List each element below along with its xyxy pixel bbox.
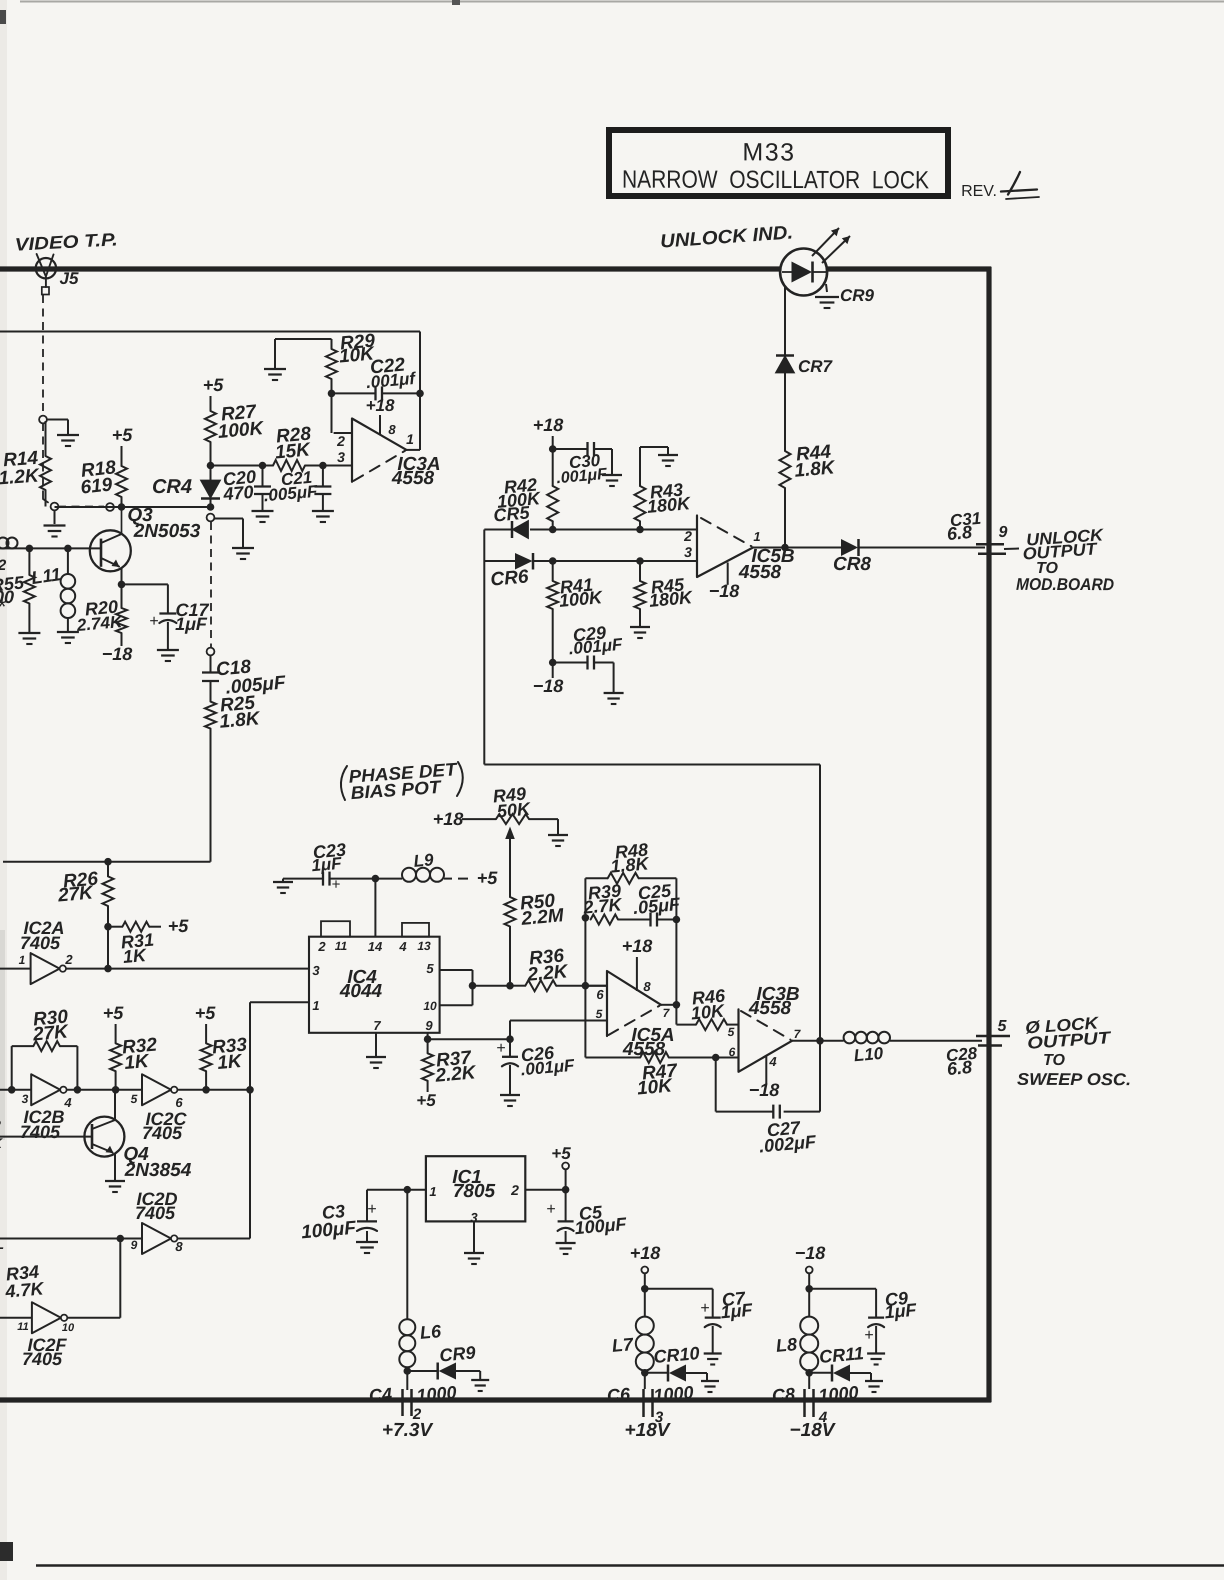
IC1 7805 regulator	[426, 1156, 525, 1221]
capacitor C3	[366, 1190, 368, 1222]
diode CR9 (supply)	[407, 1370, 437, 1372]
svg-text:−18: −18	[795, 1243, 826, 1263]
node	[549, 557, 557, 565]
svg-text:CR8: CR8	[833, 554, 871, 575]
svg-text:L9: L9	[413, 850, 435, 871]
transistor Q4	[84, 1117, 124, 1157]
svg-text:9: 9	[131, 1238, 138, 1252]
resistor R36	[510, 985, 525, 987]
svg-text:L7: L7	[611, 1334, 635, 1356]
node	[805, 1285, 813, 1293]
svg-text:4: 4	[398, 939, 407, 954]
svg-text:M33: M33	[742, 138, 795, 166]
wire phase detector feedback	[484, 764, 820, 766]
svg-text:2.2K: 2.2K	[434, 1062, 478, 1087]
svg-text:7405: 7405	[135, 1203, 176, 1223]
svg-text:L6: L6	[419, 1321, 443, 1343]
capacitor C25	[618, 919, 650, 921]
node	[816, 1037, 824, 1045]
wire to R26 bus	[3, 861, 211, 863]
svg-text:11: 11	[335, 939, 348, 953]
svg-text:+5: +5	[551, 1144, 571, 1163]
svg-text:13: 13	[417, 939, 431, 953]
node	[404, 1367, 412, 1375]
ground	[252, 510, 274, 512]
inverter IC2F	[0, 1317, 32, 1319]
node	[328, 390, 336, 398]
ground	[18, 632, 40, 634]
resistor R26	[104, 858, 112, 866]
svg-text:L8: L8	[775, 1334, 798, 1356]
op-amp IC3A	[352, 419, 407, 482]
svg-text:1.8K: 1.8K	[794, 457, 837, 482]
inductor L8	[800, 1317, 818, 1335]
svg-text:27K: 27K	[56, 882, 95, 906]
capacitor C28 feedthrough	[976, 1035, 1010, 1038]
capacitor C29	[553, 662, 587, 664]
svg-text:CR6: CR6	[490, 566, 530, 590]
svg-text:2: 2	[336, 433, 345, 449]
connector J5	[36, 258, 56, 278]
capacitor C4 feedthrough	[401, 1389, 404, 1416]
pin 2 wire	[334, 432, 351, 434]
svg-text:100K: 100K	[217, 418, 265, 443]
svg-text:1μF: 1μF	[175, 614, 208, 634]
output wire	[753, 547, 785, 549]
svg-text:619: 619	[80, 474, 114, 498]
ground	[232, 547, 254, 549]
pin 6 wire	[585, 985, 607, 987]
svg-text:+18: +18	[433, 809, 464, 829]
svg-text:+: +	[149, 613, 158, 630]
wire	[675, 920, 677, 1005]
resistor R37	[427, 1039, 429, 1053]
-18 supply	[765, 1055, 767, 1084]
capacitor C20	[262, 466, 264, 487]
ground	[556, 1242, 576, 1244]
svg-text:1: 1	[429, 1184, 436, 1199]
output wire	[792, 1040, 844, 1042]
wire	[107, 927, 109, 969]
svg-text:+: +	[496, 1040, 505, 1057]
capacitor C8 feedthrough	[808, 1373, 810, 1389]
svg-text:+: +	[864, 1327, 873, 1344]
node	[673, 916, 681, 924]
svg-text:+18: +18	[366, 396, 395, 415]
svg-text:CR9: CR9	[439, 1342, 477, 1365]
transistor Q3	[90, 530, 131, 571]
svg-text:1: 1	[19, 953, 26, 967]
ground	[312, 510, 334, 512]
IC U4 4044 phase detector	[309, 937, 440, 1033]
node	[259, 462, 267, 470]
svg-text:+18V: +18V	[625, 1420, 671, 1441]
shielded wire (dashed)	[207, 514, 215, 522]
node	[416, 390, 424, 398]
op-amp IC5B	[697, 516, 753, 578]
svg-text:4558: 4558	[748, 998, 792, 1019]
diode CR5	[484, 529, 512, 531]
svg-text:14: 14	[368, 939, 383, 954]
resistor R32	[115, 1024, 117, 1043]
svg-text:9: 9	[425, 1018, 433, 1033]
diode CR10	[645, 1372, 668, 1374]
node	[118, 581, 126, 589]
resistor R27	[210, 396, 212, 411]
svg-text:1: 1	[406, 431, 414, 447]
svg-text:+18: +18	[622, 936, 653, 956]
svg-text:10K: 10K	[636, 1075, 674, 1099]
svg-text:REV.: REV.	[961, 183, 997, 200]
svg-text:.05μF: .05μF	[632, 894, 681, 918]
svg-text:J5: J5	[60, 269, 80, 288]
svg-text:*: *	[0, 594, 7, 619]
wire	[374, 879, 376, 937]
svg-text:+: +	[700, 1300, 709, 1317]
capacitor C21	[322, 466, 324, 487]
ground	[548, 834, 568, 836]
svg-text:2N5053: 2N5053	[133, 521, 201, 542]
ground	[471, 1379, 489, 1381]
svg-text:L10: L10	[853, 1044, 884, 1066]
wire	[427, 1033, 429, 1039]
resistor R18	[121, 446, 123, 466]
svg-text:−18: −18	[533, 676, 564, 696]
svg-text:1000: 1000	[653, 1382, 695, 1405]
svg-text:1μF: 1μF	[720, 1300, 754, 1323]
svg-text:1.8K: 1.8K	[219, 708, 262, 733]
ground	[630, 626, 650, 628]
resistor R29	[275, 338, 332, 340]
wire	[784, 287, 786, 355]
svg-text:SWEEP OSC.: SWEEP OSC.	[1017, 1070, 1131, 1089]
ground	[356, 1241, 378, 1243]
wire input	[367, 1189, 426, 1191]
svg-text:−18: −18	[709, 581, 740, 601]
capacitor C17	[122, 583, 168, 585]
svg-text:7405: 7405	[20, 1122, 61, 1142]
node	[641, 1369, 649, 1377]
svg-text:CR4: CR4	[152, 476, 192, 498]
svg-text:1: 1	[753, 529, 760, 544]
svg-text:10: 10	[423, 999, 437, 1013]
svg-text:1μF: 1μF	[884, 1300, 918, 1323]
inductor L10	[844, 1032, 856, 1044]
svg-text:4558: 4558	[738, 562, 782, 583]
wire IC4 pin 1	[250, 1001, 309, 1003]
wire	[826, 284, 827, 292]
feedback node wire	[584, 878, 586, 1057]
svg-text:6: 6	[729, 1045, 736, 1059]
LED CR9	[780, 249, 827, 296]
svg-text:7405: 7405	[22, 1349, 63, 1369]
node	[319, 462, 327, 470]
resistor R42	[547, 486, 558, 521]
resistor R48	[585, 877, 607, 879]
pin 3 wire	[305, 465, 351, 467]
svg-text:7: 7	[373, 1018, 381, 1033]
svg-text:CR10: CR10	[653, 1343, 701, 1367]
svg-text:2: 2	[317, 939, 326, 954]
wire	[54, 510, 56, 524]
capacitor C27	[715, 1058, 717, 1112]
svg-text:CR11: CR11	[818, 1343, 864, 1367]
ground	[602, 474, 622, 476]
svg-text:4: 4	[768, 1054, 777, 1069]
wire	[47, 419, 68, 421]
title block	[609, 130, 948, 196]
resistor R30	[12, 1045, 34, 1047]
svg-text:5: 5	[596, 1007, 603, 1021]
capacitor C30	[553, 448, 587, 450]
svg-text:5: 5	[998, 1018, 1008, 1035]
node	[641, 1285, 649, 1293]
svg-text:1.8K: 1.8K	[610, 853, 652, 876]
ground	[44, 524, 66, 526]
svg-text:+5: +5	[112, 425, 134, 445]
capacitor C23	[283, 878, 323, 880]
node	[805, 1369, 813, 1377]
wire output	[525, 1189, 565, 1191]
capacitor C31	[976, 543, 1004, 546]
ground	[815, 296, 839, 298]
svg-text:2N3854: 2N3854	[124, 1160, 192, 1181]
node	[636, 557, 644, 565]
wiper arrow	[505, 827, 515, 840]
capacitor C7	[645, 1288, 713, 1290]
shield border bottom wire	[0, 1397, 991, 1402]
svg-text:2: 2	[510, 1182, 519, 1198]
svg-text:5: 5	[728, 1025, 735, 1039]
svg-text:100K: 100K	[558, 587, 605, 611]
svg-text:7805: 7805	[453, 1181, 496, 1202]
node	[549, 445, 557, 453]
svg-text:1000: 1000	[818, 1382, 860, 1405]
capacitor C9	[809, 1288, 876, 1290]
ground	[157, 649, 179, 651]
svg-text:4044: 4044	[339, 981, 383, 1002]
ground	[867, 1352, 885, 1354]
resistor R41	[552, 561, 554, 581]
svg-text:1K: 1K	[217, 1051, 244, 1074]
svg-text:3: 3	[684, 544, 692, 560]
resistor R20	[121, 584, 123, 608]
resistor R45	[639, 561, 641, 581]
page top edge mark	[20, 1, 1224, 3]
svg-text:+7.3V: +7.3V	[382, 1420, 434, 1441]
svg-text:CR7: CR7	[798, 357, 834, 376]
ground	[57, 434, 79, 436]
svg-text:4: 4	[63, 1095, 72, 1110]
svg-text:2.7K: 2.7K	[582, 894, 625, 917]
node	[372, 875, 380, 883]
node	[207, 503, 215, 511]
ground	[865, 1380, 883, 1382]
shielded wire from J5 (dashed)	[42, 295, 44, 416]
node	[712, 1054, 720, 1062]
svg-text:3: 3	[312, 963, 320, 978]
svg-text:+5: +5	[195, 1003, 217, 1023]
svg-text:27K: 27K	[31, 1021, 70, 1045]
svg-text:L11: L11	[30, 564, 62, 588]
svg-text:470: 470	[222, 482, 255, 505]
wire Q3 base	[14, 547, 101, 549]
svg-text:2: 2	[64, 952, 73, 967]
node	[207, 462, 215, 470]
svg-text:+5: +5	[168, 916, 190, 936]
capacitor C5	[565, 1190, 567, 1222]
svg-text:4.7K: 4.7K	[4, 1278, 47, 1301]
shield border right wire	[986, 267, 991, 1402]
diode CR6	[484, 560, 515, 562]
svg-text:180K: 180K	[646, 493, 693, 517]
svg-text:5: 5	[131, 1092, 138, 1106]
capacitor C18	[210, 655, 212, 673]
node	[104, 923, 112, 931]
svg-text:8: 8	[643, 979, 651, 994]
inverter IC2C	[142, 1074, 171, 1105]
svg-text:8: 8	[388, 422, 396, 437]
wire	[119, 1239, 121, 1318]
svg-text:+5: +5	[103, 1003, 125, 1023]
op-amp IC3B	[739, 1009, 793, 1071]
svg-text:+5: +5	[203, 375, 225, 395]
svg-text:8: 8	[175, 1239, 183, 1254]
ground	[604, 692, 624, 694]
resistor R47	[585, 1057, 640, 1059]
svg-text:7405: 7405	[20, 933, 61, 953]
svg-text:2: 2	[683, 528, 692, 544]
inductor L6	[406, 1190, 408, 1320]
shield tap node	[39, 416, 47, 424]
node	[104, 965, 112, 973]
node	[636, 526, 644, 534]
inverter IC2A	[0, 968, 31, 970]
svg-text:MOD.BOARD: MOD.BOARD	[1016, 575, 1114, 594]
svg-text:10: 10	[62, 1322, 75, 1334]
svg-text:1μF: 1μF	[311, 854, 343, 876]
svg-text:1K: 1K	[122, 945, 149, 967]
pin 5 wire	[510, 1020, 607, 1022]
wire IC3A feedback bus	[0, 331, 420, 333]
ground	[105, 1180, 125, 1182]
svg-text:10K: 10K	[690, 1000, 727, 1023]
svg-text:NARROW OSCILLATOR LOCK: NARROW OSCILLATOR LOCK	[622, 166, 929, 195]
resistor R46	[675, 1005, 677, 1025]
wire	[214, 518, 243, 520]
pin 5/10 tie	[440, 969, 473, 971]
shield node	[51, 503, 59, 511]
op-amp IC5A	[607, 971, 661, 1036]
svg-text:−18: −18	[749, 1080, 780, 1100]
ground	[500, 1094, 520, 1096]
ground	[704, 1352, 722, 1354]
svg-text:+5: +5	[416, 1091, 436, 1110]
svg-text:180K: 180K	[648, 587, 695, 611]
resistor R31	[122, 922, 149, 932]
resistor R33	[205, 1024, 207, 1043]
inverter IC2B	[0, 1089, 31, 1091]
svg-text:11: 11	[17, 1321, 28, 1333]
svg-text:2.2K: 2.2K	[526, 961, 570, 986]
svg-text:6.8: 6.8	[946, 1057, 973, 1079]
node	[781, 544, 789, 552]
resistor R50	[505, 897, 516, 927]
ground	[282, 879, 284, 881]
inductor L9	[375, 878, 402, 880]
svg-text:C6: C6	[606, 1384, 632, 1406]
svg-text:3: 3	[337, 449, 345, 465]
inductor L7	[636, 1317, 654, 1335]
svg-text:6: 6	[596, 987, 604, 1002]
resistor R25	[205, 702, 216, 729]
resistor R14	[45, 421, 47, 456]
inductor L11	[67, 548, 69, 574]
resistor R39	[591, 915, 618, 925]
node	[549, 526, 557, 534]
svg-text:−18V: −18V	[790, 1420, 836, 1441]
pin 3 ground	[473, 1221, 475, 1252]
svg-text:CR9: CR9	[840, 286, 875, 305]
svg-text:1K: 1K	[124, 1051, 151, 1074]
svg-text:+18: +18	[630, 1243, 661, 1263]
diode CR11	[809, 1372, 832, 1374]
svg-text:3: 3	[22, 1092, 29, 1106]
svg-text:TO: TO	[1043, 1052, 1066, 1069]
resistor R44	[780, 451, 791, 488]
-18 supply	[727, 563, 729, 585]
capacitor C6 feedthrough	[644, 1373, 646, 1389]
svg-text:+: +	[367, 1201, 376, 1218]
resistor R28	[211, 465, 274, 467]
inductor L12 (cut off)	[0, 538, 9, 549]
resistor R55	[28, 548, 30, 575]
svg-text:9: 9	[999, 524, 1008, 541]
svg-text:15K: 15K	[274, 439, 312, 463]
svg-text:4558: 4558	[391, 468, 435, 489]
svg-text:1.2K: 1.2K	[0, 466, 41, 490]
diode CR7	[776, 357, 794, 373]
node	[106, 503, 114, 511]
wire base node to CR4	[55, 506, 209, 508]
resistor R43	[639, 447, 641, 486]
svg-text:2.2M: 2.2M	[520, 905, 566, 930]
page bottom edge mark	[36, 1564, 1224, 1567]
capacitor C22	[332, 392, 376, 394]
pin 7 ground	[375, 1033, 377, 1056]
svg-text:1: 1	[312, 998, 319, 1013]
svg-text:+5: +5	[477, 868, 499, 888]
ground	[274, 339, 276, 368]
svg-text:7405: 7405	[142, 1123, 183, 1143]
svg-text:2: 2	[0, 557, 7, 574]
node	[506, 982, 514, 990]
shield border top wire	[0, 266, 781, 271]
svg-text:+: +	[546, 1201, 555, 1218]
svg-text:C4: C4	[368, 1384, 393, 1406]
svg-text:C8: C8	[771, 1384, 796, 1406]
svg-text:1000: 1000	[416, 1382, 458, 1405]
wire phase-det node	[483, 530, 485, 765]
wire	[473, 985, 511, 987]
svg-text:−18: −18	[102, 644, 133, 664]
ground	[701, 1380, 719, 1382]
svg-text:5: 5	[426, 961, 434, 976]
svg-text:6: 6	[175, 1095, 183, 1110]
node	[673, 1001, 681, 1009]
diode CR8	[841, 539, 858, 556]
node	[549, 659, 557, 667]
